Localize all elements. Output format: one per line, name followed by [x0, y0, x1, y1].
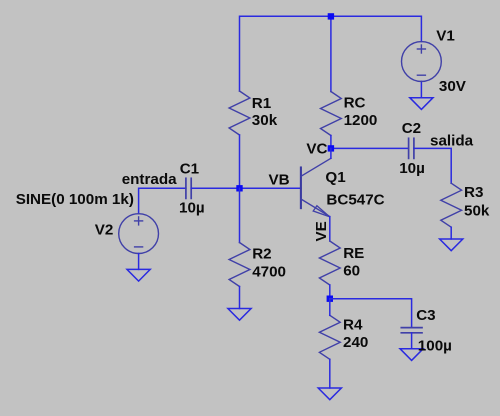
- svg-text:R1: R1: [252, 95, 272, 112]
- svg-text:C1: C1: [180, 161, 200, 178]
- ground under R2: [228, 309, 251, 321]
- svg-text:V1: V1: [436, 28, 455, 45]
- svg-text:C3: C3: [416, 307, 435, 324]
- svg-text:Q1: Q1: [325, 169, 346, 186]
- resistor R1: [229, 91, 250, 135]
- svg-text:60: 60: [343, 263, 360, 280]
- transistor Q1: [301, 158, 331, 217]
- ground under C3: [400, 349, 423, 361]
- ground under R4: [318, 388, 341, 400]
- wire RC drop from top rail: [330, 16, 332, 91]
- wire V1 to ground: [420, 81, 422, 97]
- wire R1 to VB node: [239, 135, 241, 188]
- svg-text:30k: 30k: [252, 112, 278, 129]
- wire VC to C2: [331, 147, 409, 149]
- ground under V2: [127, 269, 150, 281]
- resistor RE: [319, 241, 340, 285]
- svg-text:50k: 50k: [464, 203, 490, 220]
- svg-text:100µ: 100µ: [418, 338, 452, 355]
- svg-text:VB: VB: [269, 172, 290, 189]
- svg-text:240: 240: [343, 334, 368, 351]
- ground under R3: [440, 239, 463, 251]
- resistor RC: [321, 92, 342, 136]
- svg-text:SINE(0 100m 1k): SINE(0 100m 1k): [16, 191, 134, 208]
- capacitor C1: [186, 178, 191, 198]
- svg-text:C2: C2: [402, 120, 421, 137]
- resistor R2: [229, 243, 250, 287]
- wire emitter to RE: [329, 217, 331, 241]
- wire node to R4: [329, 299, 331, 316]
- svg-text:salida: salida: [430, 133, 474, 150]
- svg-text:VC: VC: [306, 140, 327, 157]
- svg-text:VE: VE: [313, 221, 330, 241]
- svg-text:BC547C: BC547C: [326, 191, 384, 208]
- capacitor C3: [401, 328, 422, 333]
- capacitor C2: [409, 138, 414, 158]
- wire R3 to ground: [450, 227, 452, 239]
- wire collector pin: [330, 148, 332, 158]
- resistor R3: [441, 183, 462, 227]
- svg-text:30V: 30V: [439, 78, 467, 95]
- wire C1 to base: [191, 187, 301, 189]
- wire bottom node to C3: [330, 299, 412, 328]
- svg-text:entrada: entrada: [122, 171, 177, 188]
- wire RC to VC node: [330, 136, 332, 149]
- wire V2 to ground: [138, 254, 140, 270]
- voltage source V1: [402, 42, 442, 82]
- svg-text:R2: R2: [252, 246, 271, 263]
- svg-text:R4: R4: [343, 317, 363, 334]
- svg-text:10µ: 10µ: [399, 160, 425, 177]
- wire RE to bottom node: [329, 285, 331, 299]
- wire R4 to ground: [329, 359, 331, 388]
- wire VB to R2: [239, 188, 241, 242]
- svg-text:R3: R3: [464, 184, 483, 201]
- svg-text:10µ: 10µ: [179, 199, 205, 216]
- node VB: [236, 185, 242, 191]
- wire V2 to entrada corner: [139, 188, 186, 213]
- wire C3 to ground: [411, 333, 413, 349]
- ground under V1: [410, 98, 433, 110]
- svg-text:RC: RC: [344, 95, 366, 112]
- svg-text:4700: 4700: [252, 263, 286, 280]
- node top junction: [328, 13, 334, 19]
- svg-text:V2: V2: [95, 222, 114, 239]
- node VC: [328, 145, 334, 151]
- wire C2 to R3: [414, 148, 451, 183]
- svg-text:1200: 1200: [344, 112, 378, 129]
- voltage source V2: [119, 214, 159, 254]
- node emitter bottom: [327, 296, 333, 302]
- resistor R4: [319, 315, 340, 359]
- wire R2 to ground: [239, 287, 241, 309]
- svg-text:RE: RE: [343, 245, 364, 262]
- wire top rail: [240, 16, 422, 91]
